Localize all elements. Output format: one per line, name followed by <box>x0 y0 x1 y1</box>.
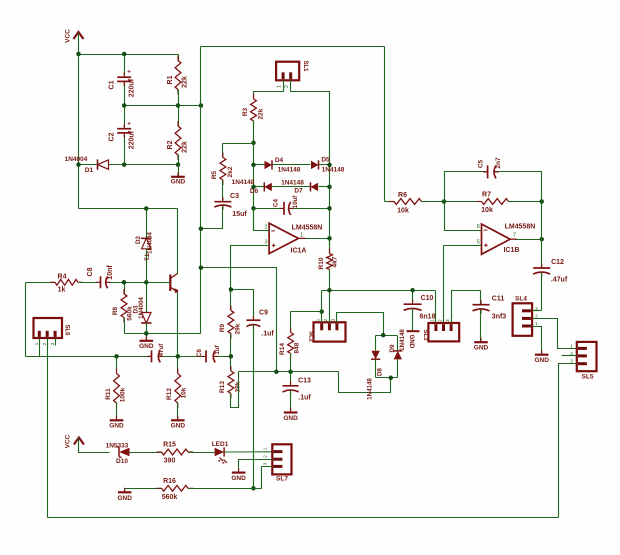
wire SL6 pin1 to rail <box>39 339 41 357</box>
svg-text:C10: C10 <box>421 295 434 302</box>
svg-text:22k: 22k <box>258 108 265 119</box>
svg-text:3: 3 <box>262 462 268 465</box>
node junction R14/SL2 pin1 <box>319 309 324 314</box>
diode D2 1N4004 <box>135 209 153 283</box>
svg-text:GND: GND <box>171 179 186 186</box>
capacitor C8 10nf <box>87 265 114 289</box>
diode D7 1N4148 <box>281 180 318 195</box>
pin numbers SL6 <box>34 342 56 345</box>
svg-text:1N4148: 1N4148 <box>278 167 301 174</box>
diode D9 1N4148 <box>389 329 406 378</box>
pin numbers SL5 <box>570 343 573 364</box>
svg-text:C5: C5 <box>478 159 485 168</box>
capacitor C11 3nf3 <box>473 291 507 342</box>
svg-text:SL4: SL4 <box>515 296 527 303</box>
wire LED1 to SL7 pin1 <box>224 451 272 453</box>
svg-text:390: 390 <box>164 458 176 465</box>
wire 201 bus vertical <box>200 47 202 334</box>
svg-text:C9: C9 <box>259 310 268 317</box>
node junction D8/D9 feed <box>381 333 386 338</box>
wire VCC top rail <box>79 54 179 56</box>
diode D5 1N4148 <box>311 157 345 174</box>
svg-text:22k: 22k <box>182 76 189 88</box>
wire VCC stem <box>78 33 80 55</box>
svg-text:D8: D8 <box>377 367 384 375</box>
svg-text:R14: R14 <box>279 343 286 355</box>
diode D3 1N4004 <box>133 283 152 341</box>
resistor R10 4k7 <box>318 239 339 291</box>
node junction base/D2/D3 <box>144 280 149 285</box>
wire SL2 pin1 up <box>321 291 323 323</box>
diode D10 1N5333 (zener) <box>106 442 130 465</box>
svg-text:C6: C6 <box>196 348 203 356</box>
node junction VCC/C1 rail <box>76 52 81 57</box>
svg-text:2: 2 <box>284 85 290 88</box>
diode LED1 <box>212 441 229 463</box>
wire signal rail <box>26 356 231 358</box>
wire SL5 pin3 to bottom bus <box>559 364 577 518</box>
svg-text:3nf3: 3nf3 <box>492 314 507 321</box>
op-amp IC1A LM4558N <box>269 223 322 254</box>
svg-text:10uf: 10uf <box>292 195 299 209</box>
svg-text:R9: R9 <box>219 323 226 332</box>
wire left drop from R4 <box>25 283 27 357</box>
connector SL5 <box>577 342 597 381</box>
svg-text:1N4148: 1N4148 <box>232 179 255 186</box>
capacitor C10 6n8 <box>404 291 436 331</box>
svg-text:R1: R1 <box>167 75 174 84</box>
wire left diode bus <box>253 143 255 231</box>
resistor R1 22k <box>167 55 189 106</box>
resistor R14 848 <box>279 312 322 372</box>
ground GND under D3 <box>139 336 154 350</box>
node junction C4 left <box>251 206 256 211</box>
wire collector <box>177 209 179 274</box>
ground GND under SL4 pin1 <box>534 350 549 364</box>
capacitor C2 220uf <box>109 106 136 165</box>
node junction C1 top <box>122 52 127 57</box>
svg-text:.1uf: .1uf <box>261 331 274 338</box>
connector SL7 <box>272 444 291 482</box>
node junction R7/C5 <box>539 199 544 204</box>
capacitor C13 .1uf <box>283 372 312 412</box>
svg-text:1N4148: 1N4148 <box>367 378 374 400</box>
svg-text:47uf: 47uf <box>158 343 165 357</box>
wire top feed drop <box>384 47 386 202</box>
svg-text:SL2: SL2 <box>308 331 314 343</box>
node junction D7 right <box>327 185 332 190</box>
wire C12 to SL4 pin3 <box>533 310 542 312</box>
op-amp IC1B LM4558N <box>482 224 536 255</box>
diode D4 1N4148 <box>265 157 301 174</box>
svg-text:1: 1 <box>276 85 282 88</box>
svg-text:1N4148: 1N4148 <box>322 167 345 174</box>
node junction tee/rail <box>274 370 279 375</box>
svg-text:GND: GND <box>171 423 186 430</box>
diode D6 1N4148 <box>232 179 272 195</box>
wire VCC2 stem <box>79 438 110 453</box>
wire SL6 pin3 stub <box>55 339 57 346</box>
node junction base/C8/R8 <box>122 280 127 285</box>
svg-text:10nf: 10nf <box>107 265 114 280</box>
svg-text:220uf: 220uf <box>129 78 136 97</box>
ground GND under C11 <box>474 338 489 352</box>
svg-text:C12: C12 <box>551 259 564 266</box>
resistor R6 10k <box>385 192 445 215</box>
pin numbers SL1 <box>276 85 290 88</box>
svg-text:220uf: 220uf <box>129 130 136 149</box>
svg-text:D9: D9 <box>389 344 396 352</box>
svg-text:VCC: VCC <box>65 29 72 43</box>
svg-text:10k: 10k <box>397 208 409 215</box>
svg-text:C3: C3 <box>230 193 239 200</box>
ground GND under R11 <box>109 416 124 430</box>
node junction output/right bus <box>327 236 332 241</box>
node junction C1/C2 <box>122 103 127 108</box>
wire IC1A pin2 <box>254 209 270 231</box>
wire SL7 pin3 down <box>262 467 273 489</box>
svg-text:4k7: 4k7 <box>332 256 339 267</box>
node junction emitter/rail <box>176 354 181 359</box>
svg-text:1: 1 <box>316 318 322 321</box>
svg-text:100k: 100k <box>120 387 127 402</box>
svg-text:R13: R13 <box>219 381 226 393</box>
node junction C10 tap <box>410 288 415 293</box>
wire SL4 pin2 to SL5 pin1 <box>533 319 577 349</box>
wire IC1B pin6 <box>445 202 482 231</box>
svg-text:SL1: SL1 <box>302 60 308 72</box>
wire SL1 pin2 to right bus <box>291 80 330 93</box>
resistor R3 22k <box>242 94 265 143</box>
svg-text:D1: D1 <box>85 167 94 174</box>
resistor R2 22k <box>167 106 189 165</box>
wire bus to R8 row <box>125 333 201 335</box>
resistor R15 390 <box>157 442 194 465</box>
wire IC1A pin3 <box>231 246 270 290</box>
wire SL7 pin2 to GND <box>239 460 273 472</box>
svg-text:SL6: SL6 <box>64 324 70 336</box>
wire IC1B pin5 to SL3 pin2 <box>443 246 445 323</box>
resistor R7 10k <box>445 191 542 214</box>
wire D10 to R15 <box>130 452 162 454</box>
resistor R16 560k <box>125 478 254 501</box>
wire C5 loop <box>445 172 542 202</box>
wire rail hook to D8/D9 <box>339 372 391 393</box>
wire D6 row <box>254 186 330 188</box>
wire R5 top link <box>223 143 254 145</box>
svg-text:R15: R15 <box>163 442 176 449</box>
svg-text:C13: C13 <box>298 378 311 385</box>
ground GND under SL7 pin2 <box>231 468 246 482</box>
svg-text:IC1A: IC1A <box>291 248 307 255</box>
resistor R12 10k <box>166 357 188 420</box>
wire pin3 tee run <box>201 268 277 372</box>
svg-text:10k: 10k <box>181 387 188 398</box>
wire VCC left bus down <box>78 55 80 209</box>
svg-text:R11: R11 <box>105 388 112 400</box>
wire SL6 pin2 drop <box>47 339 49 518</box>
node junction output/C12 <box>539 237 544 242</box>
wire C9 drop <box>253 325 255 489</box>
svg-text:2k2: 2k2 <box>227 166 234 177</box>
svg-text:2: 2 <box>437 319 443 322</box>
capacitor C7 47uf <box>147 343 165 363</box>
svg-text:29k: 29k <box>235 323 242 334</box>
svg-text:GND: GND <box>109 423 124 430</box>
svg-text:1k: 1k <box>58 287 66 294</box>
wire collector feed row <box>79 208 178 210</box>
svg-text:GND: GND <box>534 357 549 364</box>
wire output bus down <box>541 202 543 268</box>
node junction R2 bottom <box>176 162 181 167</box>
svg-text:R12: R12 <box>166 388 173 400</box>
svg-text:1: 1 <box>262 447 268 450</box>
power VCC symbol (bottom) <box>65 434 84 448</box>
svg-text:D10: D10 <box>116 458 128 465</box>
svg-text:1uf: 1uf <box>214 344 221 354</box>
svg-text:R7: R7 <box>482 191 491 198</box>
pin numbers IC1A <box>264 225 303 246</box>
svg-text:SL3: SL3 <box>422 329 428 341</box>
svg-text:2: 2 <box>262 455 268 458</box>
capacitor C12 .47uf <box>533 259 568 311</box>
svg-text:2: 2 <box>264 225 267 231</box>
node junction R6/R7/pin6 <box>442 199 447 204</box>
node junction R11 tap <box>114 354 119 359</box>
wire base row <box>106 282 171 284</box>
wire SL5 pin2 stub <box>562 355 577 357</box>
pin numbers SL3 <box>430 319 451 322</box>
svg-text:GND: GND <box>408 335 415 349</box>
svg-text:C8: C8 <box>87 267 94 276</box>
svg-text:3: 3 <box>264 240 267 246</box>
node junction D6 left <box>251 185 256 190</box>
wire rail mid <box>322 290 436 292</box>
svg-text:VCC: VCC <box>65 434 72 448</box>
resistor R11 100k <box>105 357 127 420</box>
wire 201 bus top run <box>201 46 385 48</box>
svg-text:R8: R8 <box>112 306 119 315</box>
svg-text:GND: GND <box>231 475 246 482</box>
ground GND under C10 (rotated) <box>407 331 420 349</box>
wire SL2 pin2 up <box>329 291 331 323</box>
svg-text:3: 3 <box>445 319 451 322</box>
node junction R16/C9 line <box>251 486 256 491</box>
svg-text:D4: D4 <box>275 157 284 164</box>
svg-text:T1: T1 <box>142 253 149 261</box>
svg-text:D2: D2 <box>135 235 142 243</box>
node junction R9/R13/C6 <box>229 354 234 359</box>
svg-text:1: 1 <box>300 232 303 238</box>
node junction C4 right <box>327 206 332 211</box>
wire SL1 pin1 to R3 <box>254 80 284 99</box>
pin numbers SL4 <box>535 306 538 327</box>
capacitor C6 1uf <box>196 344 221 362</box>
svg-text:R3: R3 <box>242 107 249 116</box>
svg-text:R5: R5 <box>211 170 218 179</box>
svg-text:5: 5 <box>477 240 480 246</box>
svg-text:1N4148: 1N4148 <box>281 180 304 187</box>
pin numbers SL7 <box>262 447 268 465</box>
svg-text:R4: R4 <box>58 274 67 281</box>
resistor R5 2k2 <box>211 144 234 201</box>
wire IC1A output <box>306 238 330 240</box>
resistor R9 29k <box>219 306 242 357</box>
resistor R4 1k <box>26 274 101 294</box>
svg-text:1N4004: 1N4004 <box>147 232 154 254</box>
capacitor C4 10uf <box>273 195 300 215</box>
node junction D1/VCC bus <box>76 162 81 167</box>
node junction R10/rail/SL2 <box>327 288 332 293</box>
node junction C2 bottom <box>122 162 127 167</box>
diode D8 1N4148 <box>367 336 384 400</box>
resistor R8 560k <box>112 283 134 334</box>
svg-text:LM4558N: LM4558N <box>292 225 323 232</box>
wire R15 to LED1 <box>189 452 215 454</box>
svg-text:+: + <box>127 69 131 76</box>
wire IC1B output <box>517 239 542 241</box>
connector SL6 <box>34 318 70 338</box>
node junction D3/R8 row <box>144 331 149 336</box>
ground GND under R2 <box>171 165 186 186</box>
svg-text:R6: R6 <box>398 192 407 199</box>
svg-text:C2: C2 <box>109 132 116 141</box>
svg-text:R2: R2 <box>167 140 174 149</box>
svg-text:1N4148: 1N4148 <box>399 329 406 351</box>
wire mid rail (bias divider) <box>125 105 201 107</box>
wire D1 row <box>79 164 179 166</box>
wire SL3 pin3 to rail right <box>452 291 481 323</box>
capacitor C3 15uf <box>214 193 247 218</box>
svg-text:R16: R16 <box>163 478 176 485</box>
svg-text:+: + <box>127 121 131 128</box>
svg-text:1N4004: 1N4004 <box>65 156 88 163</box>
wire SL2 pin3 to D8/D9 <box>337 313 384 336</box>
svg-text:LED1: LED1 <box>212 441 229 448</box>
svg-text:848: 848 <box>294 342 301 353</box>
ground GND under R12 <box>171 416 186 430</box>
node junction R14/C13 <box>288 370 293 375</box>
wire D8/D9 bottom rail <box>376 377 398 379</box>
node junction mid-rail/bus <box>199 103 204 108</box>
ground GND left of R16 <box>117 488 132 502</box>
svg-text:D7: D7 <box>294 188 303 195</box>
svg-text:C1: C1 <box>109 80 116 89</box>
svg-text:IC1B: IC1B <box>504 247 520 254</box>
wire bottom bus <box>48 517 559 519</box>
svg-text:GND: GND <box>283 415 298 422</box>
pin numbers IC1B <box>477 224 516 246</box>
svg-text:GND: GND <box>139 343 154 350</box>
capacitor C9 1uf <box>246 310 274 338</box>
connector SL1 <box>276 60 308 80</box>
svg-text:LM4558N: LM4558N <box>505 224 536 231</box>
svg-text:C4: C4 <box>273 198 280 206</box>
power VCC symbol (top left) <box>65 29 84 43</box>
wire right bus vertical <box>329 92 331 254</box>
svg-text:SL5: SL5 <box>582 374 594 381</box>
wire rail to SL3 pin1 <box>435 291 437 323</box>
wire SL4 pin1 to GND <box>533 327 542 354</box>
svg-text:GND: GND <box>474 345 489 352</box>
svg-text:.1uf: .1uf <box>298 395 311 402</box>
wire C4 row <box>254 208 330 210</box>
wire R9 link <box>230 290 232 311</box>
node junction D4 left <box>251 163 256 168</box>
svg-text:1: 1 <box>570 343 573 349</box>
svg-text:1: 1 <box>430 319 436 322</box>
transistor T1 (NPN) <box>142 253 178 293</box>
wire emitter down <box>177 293 179 357</box>
wire IC1B pin5 <box>444 245 482 247</box>
node junction tee 201-bus <box>199 265 204 270</box>
capacitor C1 220uf <box>109 55 136 106</box>
wire R14 rail <box>239 371 339 373</box>
svg-text:D5: D5 <box>321 157 330 164</box>
svg-text:2n7: 2n7 <box>495 157 502 169</box>
wire branch to C9 <box>231 290 254 321</box>
node junction R3 bottom / R5 <box>251 141 256 146</box>
svg-text:560k: 560k <box>162 494 178 501</box>
wire R13 hook to rail <box>231 372 239 408</box>
svg-text:GND: GND <box>117 495 132 502</box>
svg-text:22k: 22k <box>182 141 189 153</box>
svg-text:2: 2 <box>323 318 329 321</box>
svg-text:C11: C11 <box>492 296 505 303</box>
wire R16 row right <box>254 488 262 490</box>
wire D4 row <box>254 164 330 166</box>
node junction D5 right <box>327 163 332 168</box>
svg-text:3: 3 <box>331 318 337 321</box>
node junction C3 tap <box>199 226 204 231</box>
resistor R13 39k <box>219 357 242 399</box>
node junction R9 top <box>229 287 234 292</box>
node junction R1/R2 <box>176 103 181 108</box>
wire C3 bottom to bus <box>201 206 223 229</box>
capacitor C5 2n7 <box>478 157 502 178</box>
svg-text:1N5333: 1N5333 <box>106 442 129 449</box>
connector SL4 <box>513 296 533 336</box>
svg-text:1N4004: 1N4004 <box>138 297 145 319</box>
diode D1 1N4004 <box>65 156 109 174</box>
svg-text:10k: 10k <box>481 207 493 214</box>
svg-text:.47uf: .47uf <box>551 277 568 284</box>
pin numbers SL2 <box>316 318 337 321</box>
svg-text:SL7: SL7 <box>276 476 288 483</box>
wire D8/D9 top rail <box>376 335 398 337</box>
svg-text:6: 6 <box>477 224 480 230</box>
node junction D2 top <box>144 206 149 211</box>
node junction D8/D9 bottom <box>389 376 394 381</box>
svg-text:7: 7 <box>513 233 516 239</box>
ground GND under C13 <box>283 408 298 422</box>
svg-text:15uf: 15uf <box>232 211 247 218</box>
connector SL2 <box>308 322 346 342</box>
connector SL3 <box>422 323 459 341</box>
svg-text:R10: R10 <box>318 257 325 269</box>
